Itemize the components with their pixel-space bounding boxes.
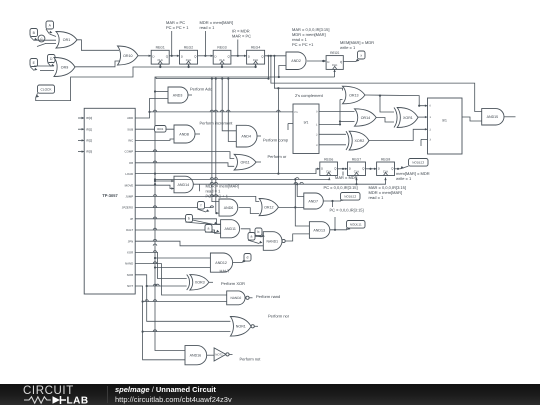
wire clock to REG4 [254, 64, 256, 68]
wire XOR3 out [209, 281, 213, 283]
wire OR13 in2 [340, 99, 343, 101]
CircuitLab logo [23, 386, 95, 405]
svg-text:COMP: COMP [125, 150, 134, 154]
wire OR13 tap to XOR1 [379, 95, 394, 113]
net flag a2 [248, 233, 262, 244]
svg-text:NAND2: NAND2 [230, 296, 241, 300]
or-gate OR9 [54, 58, 75, 77]
annotation MAR=MDR [335, 175, 358, 180]
wire vert V215 to AND6 low [215, 79, 219, 215]
IC U1 TP-3057 [84, 108, 135, 294]
wire COMP pin [135, 150, 234, 159]
annotation Perform or [268, 154, 288, 159]
wire OR14 in2 [340, 121, 355, 123]
wire AND2 out to REG5 D [307, 60, 326, 62]
pin JPZERO [122, 206, 134, 210]
annotation Perform nor [268, 314, 290, 319]
svg-text:9/1: 9/1 [442, 119, 447, 123]
svg-text:Perform not: Perform not [240, 357, 262, 362]
svg-text:JP: JP [130, 217, 133, 221]
wire LOAD pin [135, 173, 279, 175]
and-gate AND15 [482, 109, 504, 125]
svg-text:AND14: AND14 [178, 183, 190, 187]
svg-text:Perform increment: Perform increment [200, 121, 234, 126]
wire NAND2 out [250, 297, 253, 299]
junction y78.6 [221, 78, 223, 80]
node flag NODE12 [341, 193, 361, 202]
and-gate AND16 [185, 346, 207, 365]
net flag E [30, 59, 38, 71]
wire OR14 out to XOR1 [376, 118, 394, 123]
annotation Perform comp [263, 138, 289, 143]
wire branch NOR1 in2 [142, 330, 231, 333]
svg-text:MAR = PC: MAR = PC [232, 34, 251, 39]
svg-text:AND3: AND3 [173, 93, 183, 97]
register REG1 [151, 46, 169, 64]
junction V3 [154, 178, 156, 180]
wire box3 pin4 stub [421, 139, 428, 146]
svg-text:XOR1: XOR1 [403, 116, 413, 120]
annotation state7 [369, 185, 406, 200]
wire REG4 to AND15 long [270, 55, 482, 112]
svg-text:REG1: REG1 [156, 46, 165, 50]
pin JP [130, 217, 133, 221]
nor-gate NOR1 [230, 317, 254, 337]
annotation link PC3 [334, 217, 336, 230]
and-gate AND11 [221, 220, 240, 238]
svg-text:AND4: AND4 [241, 135, 251, 139]
annotation state4 [292, 27, 329, 47]
net flag x [356, 51, 365, 62]
nand-gate NAND1 [263, 232, 285, 251]
register REG8 [377, 157, 395, 175]
wire REG2 Q to REG3 D [198, 55, 214, 57]
junction REG2-REG3 net [204, 55, 206, 57]
svg-text:AND2: AND2 [291, 59, 301, 63]
svg-text:NODE13: NODE13 [412, 160, 424, 164]
wire REG5 Q to flag [343, 61, 356, 63]
register REG3 [213, 46, 231, 64]
svg-text:0001: 0001 [157, 127, 164, 131]
svg-text:AND7: AND7 [308, 199, 318, 203]
net flag b1 [186, 215, 218, 225]
annotation Perform not [240, 357, 262, 362]
register REG6 [320, 157, 338, 175]
svg-text:OR14: OR14 [361, 116, 370, 120]
wire JPZERO pin [135, 206, 214, 208]
wire REG6 Q to REG7 D [338, 168, 348, 170]
and-gate AND8 [174, 125, 195, 143]
svg-text:write = 1: write = 1 [340, 45, 356, 50]
svg-text:b: b [188, 217, 190, 221]
register REG5 [326, 51, 343, 69]
wire AND6 out to OR12 [239, 208, 260, 214]
register REG4 [247, 46, 265, 64]
pin NOT [127, 284, 133, 288]
wire JUMP pin [135, 195, 259, 202]
svg-text:OR1: OR1 [63, 38, 70, 42]
wire AND14 out line [193, 178, 386, 185]
svg-text:TP-3057: TP-3057 [102, 193, 118, 198]
svg-text:OR11: OR11 [241, 161, 250, 165]
net flag d [242, 254, 251, 263]
wire branch XOR3 in2 [146, 284, 187, 287]
junction V3 [154, 173, 156, 175]
svg-text:NOR1: NOR1 [236, 325, 246, 329]
svg-text:OR10: OR10 [123, 54, 132, 58]
wire OR12 out to AND7 [278, 206, 303, 208]
wire NOT pin to AND16 [135, 286, 185, 360]
annotation state6 [206, 184, 240, 199]
pin OR [129, 161, 133, 165]
svg-text:JUMP: JUMP [125, 195, 133, 199]
wire AND2 lower input [278, 66, 286, 79]
wire OR9 out to OR10 [75, 61, 120, 67]
pin HALT [126, 228, 133, 232]
wire branch AND14 in1 [154, 180, 174, 182]
wire JPN pin [135, 239, 263, 245]
wire INC pin [135, 139, 174, 140]
wire REG4 tap down [268, 56, 270, 79]
wire vert V295 [294, 178, 309, 226]
svg-text:PC = 0,0,0,IR[3:15]: PC = 0,0,0,IR[3:15] [324, 185, 358, 190]
junction REG1-REG2 net [171, 55, 173, 57]
net flag b2 [255, 228, 265, 237]
wire box2 pin0 to OR14 [319, 111, 355, 113]
wire AND15 out [504, 116, 516, 118]
svg-text:2's complement: 2's complement [295, 93, 324, 98]
IC U3 adder unit [428, 98, 463, 154]
svg-text:MOVE: MOVE [125, 183, 134, 187]
and-gate AND13 [309, 222, 329, 239]
svg-text:read = 1: read = 1 [200, 25, 216, 30]
annotation state2 [200, 20, 234, 30]
svg-text:JPN: JPN [128, 239, 133, 243]
svg-text:9/1: 9/1 [304, 121, 309, 125]
wire vert V211 to AND6 [212, 79, 219, 202]
junction REG4 tap b [273, 55, 275, 57]
svg-text:IR[2]: IR[2] [86, 139, 92, 143]
svg-text:NOT2: NOT2 [215, 354, 223, 357]
annotation Perform increment [200, 121, 234, 126]
svg-text:AND15: AND15 [487, 115, 499, 119]
svg-text:read = 1: read = 1 [369, 195, 385, 200]
annotation link AND14 [199, 184, 201, 191]
wire AND7 out to NODE12 [323, 200, 341, 202]
svg-text:HALT: HALT [126, 228, 133, 232]
annotation Perform Add [190, 87, 212, 92]
svg-text:AND11: AND11 [225, 227, 236, 231]
net flag f [198, 202, 210, 213]
node flag NODE11 [347, 221, 366, 230]
hop AND14 line b [300, 182, 304, 184]
or-gate OR14 [355, 109, 377, 126]
wire OR1 input A [50, 34, 57, 37]
wire XOR pin to XOR3 [135, 251, 187, 279]
IC U2 2s-complement unit [293, 104, 319, 154]
annotation state PC2 [330, 208, 364, 213]
wire OR13 out [365, 95, 428, 107]
wire HALT pin [135, 228, 220, 233]
wire OR1 input B [34, 40, 56, 43]
register REG2 [180, 46, 198, 64]
svg-text:AND8: AND8 [179, 132, 189, 136]
wire REG7 clk drop [355, 178, 357, 186]
svg-text:AND6: AND6 [224, 206, 234, 210]
junction REG3-REG4 net [237, 55, 239, 57]
wire box3 out to AND15 [462, 117, 482, 121]
annotation link PC2 [332, 201, 334, 207]
annotation 2s complement [295, 93, 324, 98]
svg-text:a: a [251, 235, 253, 239]
wire REG1 Q to REG2 D [169, 55, 179, 57]
svg-text:XOR2: XOR2 [355, 139, 365, 143]
junction y78.6 [215, 78, 217, 80]
and-gate AND3 [168, 87, 188, 103]
svg-text:Perform nand: Perform nand [256, 294, 280, 299]
pin IR[2] [78, 139, 92, 143]
svg-text:REG6: REG6 [324, 157, 333, 161]
not-gate NOT2 [214, 348, 229, 361]
pin IR[1] [78, 127, 92, 131]
svg-text:OR13: OR13 [349, 93, 358, 97]
annotation Perform XOR [221, 281, 245, 286]
annotation link MDR [204, 31, 206, 56]
wire ADD pin [135, 99, 168, 119]
wire box2 pin2 to XOR2 [319, 133, 346, 135]
pin ADD [127, 116, 133, 120]
pin NOR [127, 273, 133, 277]
svg-text:AND13: AND13 [313, 228, 325, 232]
svg-text:Perform Add: Perform Add [190, 87, 212, 92]
wire P1 input [148, 110, 293, 113]
wire NAND1 out [286, 234, 310, 241]
or-gate OR13 [343, 86, 366, 104]
and-gate AND12 [210, 253, 232, 272]
wire vert V228 to AND4 low [228, 79, 236, 142]
wire clock trunk [155, 77, 335, 351]
wire box2 pin1 stub [319, 123, 341, 125]
pin IR[3] [78, 150, 92, 154]
net flag a1 [205, 225, 219, 233]
svg-text:NAND: NAND [125, 262, 133, 266]
hop REG6 clk line [210, 178, 299, 180]
svg-text:REG8: REG8 [381, 157, 390, 161]
xor-gate XOR3 [187, 275, 209, 290]
or-gate OR1 [56, 32, 77, 49]
svg-text:OR9: OR9 [61, 65, 68, 69]
svg-text:LAB: LAB [67, 396, 89, 405]
svg-text:OR12: OR12 [264, 206, 273, 210]
svg-text:REG2: REG2 [184, 46, 193, 50]
svg-text:ADD: ADD [127, 116, 133, 120]
wire AND4 out [257, 135, 261, 137]
wire clock to REG1 [159, 64, 161, 68]
wire NAND pin to NAND2 [135, 262, 227, 295]
wire NOT2 out [230, 354, 233, 356]
svg-text:SUB: SUB [127, 127, 133, 131]
svg-text:XOR: XOR [127, 251, 133, 255]
annotation PC1 [324, 185, 358, 190]
register REG7 [348, 157, 366, 175]
svg-text:REG3: REG3 [217, 46, 226, 50]
wire NOR1 out [255, 325, 259, 327]
svg-text:PC = PC + 1: PC = PC + 1 [166, 25, 189, 30]
wire AND8 out [195, 133, 200, 135]
wire REG6 D feed [277, 87, 320, 174]
and-gate AND7 [304, 193, 324, 209]
wire OR11 out [256, 161, 261, 163]
and-gate AND14 [174, 176, 193, 193]
wire vert V222 to AND4 [222, 79, 236, 131]
svg-text:Perform nor: Perform nor [268, 314, 290, 319]
svg-text:IR[1]: IR[1] [86, 127, 92, 131]
wire AND3 out [188, 94, 192, 96]
svg-text:Perform comp: Perform comp [263, 138, 289, 143]
pin LOAD [125, 172, 133, 176]
wire REG7 Q to REG8 D [366, 168, 377, 170]
wire XOR2 out to box3 [369, 128, 428, 140]
svg-text:NODE11: NODE11 [350, 222, 362, 226]
wire REG6 clk line [155, 178, 330, 181]
svg-text:MAR = MDR: MAR = MDR [335, 175, 358, 180]
pin COMP [125, 150, 134, 154]
wire a1 tail [212, 232, 217, 234]
junction y78.6 [267, 78, 269, 80]
svg-text:write = 1: write = 1 [396, 176, 412, 181]
wire tap2 down to y88 [274, 56, 342, 91]
net flag C [37, 35, 46, 46]
svg-text:NODE12: NODE12 [344, 194, 356, 198]
wire AND13 out to NODE11 [330, 229, 347, 231]
wire JP pin [135, 217, 220, 224]
wire AND12 out [233, 262, 242, 264]
svg-text:IR[3]: IR[3] [86, 150, 92, 154]
svg-text:HALT: HALT [220, 269, 230, 274]
wire REG4 Q to AND2 [265, 55, 286, 57]
wire REG5 clk [333, 69, 335, 77]
wire distribution y78.6 [156, 77, 269, 79]
wire CLOCK run [36, 67, 256, 101]
svg-text:P1: P1 [295, 111, 299, 114]
annotation memwrite [396, 171, 430, 181]
wire OR9 input E [34, 65, 54, 67]
wire clock to REG3 [221, 64, 223, 68]
annotation link IR=MDR [237, 40, 239, 56]
annotation Perform nand [256, 294, 280, 299]
svg-text:b: b [258, 230, 260, 234]
and-gate AND4 [236, 125, 257, 147]
wire OR10 out to REG1 D [138, 55, 151, 57]
wire REG8 Q to NODE13 [395, 168, 401, 170]
junction REG4 tap a [267, 55, 269, 57]
hop AND14 line a [210, 182, 298, 184]
wire MOVE pin [135, 185, 174, 190]
svg-text:AND16: AND16 [190, 354, 202, 358]
wire AND7 in1 [296, 183, 304, 196]
svg-text:NOR: NOR [127, 273, 133, 277]
annotation state3 [232, 29, 251, 39]
wire box2 left pin2 stub [288, 124, 293, 131]
or-gate OR11 [234, 154, 256, 170]
and-gate AND2 [286, 52, 306, 70]
net flag D [48, 55, 56, 67]
wire OR9 input lower [40, 70, 54, 72]
pin IR[0] [78, 116, 92, 120]
svg-text:REG5: REG5 [330, 51, 339, 55]
svg-text:CLOCK: CLOCK [41, 87, 53, 91]
junction y78.6 [227, 78, 229, 80]
svg-text:Perform XOR: Perform XOR [221, 281, 245, 286]
svg-text:Perform or: Perform or [268, 154, 288, 159]
xor-gate XOR2 [346, 131, 369, 150]
svg-text:OR: OR [129, 161, 133, 165]
svg-text:LOAD: LOAD [125, 172, 133, 176]
annotation link MAR=PC [171, 31, 173, 56]
wire clock to REG2 [187, 64, 189, 68]
svg-text:INC: INC [128, 139, 133, 143]
svg-text:REG7: REG7 [352, 157, 361, 161]
svg-text:f: f [201, 204, 202, 208]
wire XOR1 out to box3 [418, 116, 428, 118]
annotation state5 [340, 40, 374, 50]
svg-text:REG4: REG4 [251, 46, 260, 50]
annotation link MARMDR [342, 172, 344, 176]
net flag 0001 [155, 126, 167, 133]
net flag B [30, 29, 38, 41]
node flag NODE13 [401, 159, 429, 169]
or-gate OR10 [118, 46, 139, 65]
annotation state1 [166, 20, 189, 30]
svg-text:XOR3: XOR3 [195, 281, 205, 285]
wire AND3 in1 [154, 90, 168, 92]
wire NOR pin to NOR1 [135, 275, 230, 322]
or-gate OR12 [259, 199, 278, 216]
nand-gate NAND2 [227, 291, 249, 305]
svg-text:d: d [247, 256, 249, 260]
xor-gate XOR1 [394, 108, 418, 128]
pin NAND [125, 262, 133, 266]
wire OR1 out to OR10 [77, 40, 119, 51]
svg-text:IR[0]: IR[0] [86, 116, 92, 120]
svg-text:a: a [208, 227, 210, 231]
wire AND11 out to NAND1 [241, 229, 263, 237]
pin JUMP [125, 195, 133, 199]
wire bus x340 [339, 100, 341, 125]
wire OR pin to OR11 [135, 161, 234, 166]
svg-text:JPZERO: JPZERO [122, 206, 134, 210]
svg-text:AND12: AND12 [215, 261, 227, 265]
net flag A [46, 21, 54, 34]
net flag CLOCK [36, 85, 55, 98]
annotation HALT [220, 269, 230, 274]
pin SUB [127, 127, 133, 131]
junction y78.6 [211, 78, 213, 80]
wire branch AND12 in2 [154, 266, 211, 268]
junction V3 [154, 183, 156, 185]
wire AND16 out [207, 354, 214, 356]
svg-text:PC = PC +1: PC = PC +1 [292, 42, 314, 47]
svg-text:NOT: NOT [127, 284, 133, 288]
wire box2 pin3 to XOR2 [319, 144, 346, 146]
pin JPN [128, 239, 133, 243]
svg-text:x: x [360, 53, 362, 57]
svg-text:NAND1: NAND1 [267, 239, 279, 243]
pin XOR [127, 251, 133, 255]
wire b1 tail [193, 220, 221, 225]
wire branch AND12 in1 [154, 257, 211, 259]
svg-text:PC = 0,0,0,IR[3:15]: PC = 0,0,0,IR[3:15] [330, 208, 364, 213]
